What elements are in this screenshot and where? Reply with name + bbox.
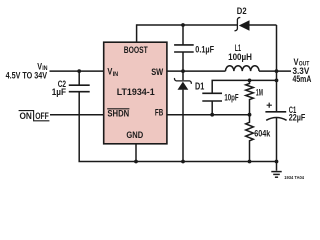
svg-text:OFF: OFF [35, 111, 49, 121]
svg-text:604k: 604k [254, 129, 271, 139]
svg-text:D2: D2 [237, 6, 247, 16]
svg-text:22µF: 22µF [289, 113, 306, 123]
svg-text:100µH: 100µH [228, 52, 252, 62]
svg-text:SHDN: SHDN [107, 109, 129, 119]
svg-text:4.5V TO 34V: 4.5V TO 34V [6, 70, 48, 80]
svg-text:1M: 1M [256, 88, 263, 98]
svg-text:BOOST: BOOST [124, 45, 148, 55]
svg-text:IN: IN [113, 71, 119, 78]
svg-text:GND: GND [126, 130, 143, 140]
svg-text:D1: D1 [195, 82, 205, 93]
svg-text:SW: SW [151, 67, 163, 77]
svg-text:ON: ON [20, 111, 32, 121]
svg-text:FB: FB [155, 108, 164, 118]
svg-text:0.1µF: 0.1µF [195, 44, 214, 54]
svg-text:45mA: 45mA [293, 74, 312, 84]
svg-text:1µF: 1µF [52, 87, 67, 97]
svg-text:1934 TA04: 1934 TA04 [284, 175, 304, 180]
svg-text:LT1934-1: LT1934-1 [117, 87, 155, 97]
svg-text:10pF: 10pF [224, 92, 239, 102]
